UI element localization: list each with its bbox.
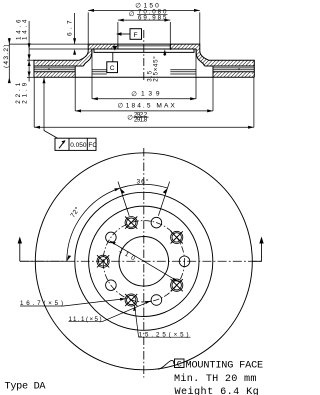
dim 70.080 extension right	[169, 22, 171, 50]
rotation arrow right	[252, 240, 261, 261]
datum C box	[107, 62, 118, 73]
arrow dim14.6 top	[28, 43, 31, 49]
hat inner wall right	[196, 49, 204, 66]
braking band inner circle	[75, 192, 213, 330]
vane line left lower	[34, 69, 75, 71]
svg-text:36°: 36°	[137, 178, 149, 186]
dim 70.080 line	[118, 19, 170, 21]
wire: vertical centerline front view	[143, 148, 145, 378]
plate1 bottom right	[205, 65, 255, 67]
vane line left upper	[34, 67, 75, 69]
svg-text:291.8: 291.8	[134, 116, 148, 123]
plate1 bottom left	[34, 65, 84, 67]
arrow 110 lower	[172, 278, 178, 282]
chamfer leader arrow	[163, 49, 166, 55]
dim 292 extension left	[33, 77, 35, 127]
dim 6.7 line	[74, 13, 76, 44]
hat interior far line 3	[92, 73, 196, 75]
arrow 36 right	[163, 188, 168, 194]
arrow dim70 right	[165, 19, 171, 22]
runout FCF box	[55, 138, 96, 150]
dim 43.2 line	[8, 38, 10, 82]
runout symbol	[59, 141, 65, 149]
arrow dim139 left	[92, 97, 98, 100]
svg-text:139: 139	[141, 91, 160, 98]
runout FCF leader arrow	[43, 78, 46, 84]
svg-text:FC: FC	[88, 142, 97, 149]
hatch: left friction plate bottom	[34, 72, 75, 78]
datum F arrow	[116, 32, 122, 35]
underline 292.2	[133, 116, 148, 118]
svg-text:∅: ∅	[127, 114, 133, 121]
bolt hole 15.25 with 16.7 chamfer at 126deg	[171, 279, 183, 291]
arrow 72 bottom	[67, 255, 71, 261]
dim 150 extension lines	[88, 12, 200, 44]
bore edge left	[117, 44, 119, 49]
arrow dim184 left	[75, 109, 81, 112]
datum F triangle on face	[112, 46, 117, 51]
svg-text:C: C	[177, 359, 182, 369]
arrow dim292 left	[34, 126, 40, 129]
chamfer leader stem	[164, 53, 166, 56]
datum C ref box bottom	[175, 359, 185, 368]
dim 292 line	[34, 126, 254, 128]
bore edge right	[169, 44, 171, 49]
band inner edge right	[212, 66, 214, 77]
vane vertical right	[238, 68, 240, 70]
bolt hole 15.25 with 16.7 chamfer at 54deg	[171, 231, 183, 243]
dim 72 arc	[67, 188, 120, 261]
ext line flange top left	[9, 43, 88, 45]
holes	[97, 217, 190, 307]
dim 184.5 line	[75, 110, 213, 112]
svg-text:C: C	[110, 65, 115, 72]
dim 184.5 extension right	[212, 77, 214, 111]
ext line mounting face left	[29, 48, 92, 50]
dim 14.6-22.1 shared line	[28, 21, 30, 82]
vane vertical left	[48, 68, 50, 70]
bolt hole 15.25 with 16.7 chamfer at 198deg	[125, 294, 137, 306]
flange bottom (mounting face)	[92, 48, 196, 50]
hole 11.1 at 18deg	[151, 217, 162, 228]
arrow dim14.6 bottom	[28, 54, 31, 60]
hatch: left plate top + bend + wall	[34, 44, 92, 66]
arrow dim43.2 bottom	[8, 77, 11, 83]
svg-text:∅: ∅	[131, 91, 137, 98]
hat interior step	[94, 49, 194, 52]
hatch: right flange	[170, 44, 196, 49]
disc section bottom edge	[34, 76, 254, 78]
svg-text:2.5×45°: 2.5×45°	[153, 56, 160, 82]
svg-text:(43.2): (43.2)	[3, 45, 10, 69]
band outer margin slot left	[35, 61, 36, 77]
FRONT VIEW	[20, 153, 262, 370]
svg-text:∅: ∅	[118, 103, 124, 110]
dim 139 extension right	[195, 50, 197, 99]
disc section outer profile	[34, 44, 254, 77]
svg-text:Type DA: Type DA	[5, 382, 47, 393]
arrow 72 upper end	[114, 188, 120, 191]
arrow 110 upper	[110, 241, 116, 245]
datum F leader	[122, 33, 131, 35]
svg-text:∅: ∅	[129, 11, 135, 18]
text 22.1 21.9 rotated	[15, 82, 28, 104]
svg-text:6.7: 6.7	[67, 20, 74, 36]
hole 11.1 at 234deg	[106, 280, 117, 291]
hat inner wall left	[84, 49, 92, 66]
rotation arrow left	[19, 240, 21, 261]
center bore circle	[119, 236, 169, 286]
dim 292 extension right	[253, 77, 255, 127]
mounting face label leader	[158, 360, 174, 369]
band top extension left	[27, 59, 34, 61]
outer circle	[35, 153, 252, 370]
arrow dim292 right	[248, 126, 254, 129]
dim 184.5 extension left	[74, 77, 76, 111]
dim 139 extension left	[91, 50, 93, 99]
bore extra line	[118, 45, 170, 47]
svg-text:F: F	[134, 32, 138, 39]
runout FCF leader	[44, 78, 58, 138]
wire: vertical axis centerline	[143, 30, 145, 81]
vane line right lower	[213, 69, 254, 71]
bolt circle centerline	[103, 221, 184, 302]
arrow 36 left	[120, 188, 125, 194]
band inner edge left	[74, 66, 76, 77]
hat interior far line 2	[92, 71, 196, 73]
arrow dim6.7 up	[73, 49, 76, 55]
dim 72 extension line at -90deg	[20, 260, 67, 262]
arrow dim22.1 top	[28, 60, 31, 66]
dim 150 line	[88, 9, 200, 11]
bolt hole 15.25 with 16.7 chamfer at 342deg	[125, 217, 137, 229]
dim 110 line	[110, 241, 179, 282]
plate2 top left	[34, 71, 75, 73]
arrow dim139 right	[190, 97, 196, 100]
datum C stem	[112, 52, 114, 61]
arrow dim6.7 down	[73, 38, 76, 44]
arrow dim150 left	[88, 9, 94, 12]
svg-text:Min. TH 20 mm: Min. TH 20 mm	[174, 373, 257, 385]
svg-text:MOUNTING FACE: MOUNTING FACE	[186, 360, 264, 371]
dim 70.080 extension left	[117, 22, 119, 44]
hatch: right friction plate bottom	[213, 72, 254, 78]
arrow dim184 right	[207, 109, 213, 112]
hole 11.1 at 162deg	[151, 295, 162, 306]
arrow dim22.1 bottom	[28, 72, 31, 78]
arrow dim150 right	[194, 9, 200, 12]
horizontal centerline	[20, 260, 262, 262]
vane line right upper	[213, 67, 254, 69]
svg-text:Weight 6.4 Kg: Weight 6.4 Kg	[175, 386, 260, 395]
datum F box	[130, 29, 142, 40]
svg-text:0.050: 0.050	[70, 142, 87, 149]
dim 36 arc	[120, 184, 168, 188]
arrow dim43.2 top	[8, 38, 11, 44]
text chamfer rotated	[146, 56, 159, 82]
hatch: left flange	[92, 44, 118, 49]
hatch: right plate top + bend + wall	[196, 44, 254, 66]
plate2 top right	[213, 71, 254, 73]
band outer margin slot right	[251, 61, 252, 77]
underline 70.080	[137, 13, 168, 15]
hole 11.1 at 90deg	[179, 256, 190, 267]
hat interior far line 1	[92, 69, 196, 71]
arrow dim70 left	[118, 19, 124, 22]
bolt hole 15.25 with 16.7 chamfer at 270deg	[97, 255, 109, 267]
dim 139 line	[92, 98, 196, 100]
hole 11.1 at 306deg	[106, 232, 117, 243]
dim 36 extension lines	[118, 182, 170, 216]
band bottom extension left	[27, 76, 34, 78]
text 14.6 14.4 rotated	[15, 19, 28, 40]
hat outer circle	[89, 206, 199, 316]
